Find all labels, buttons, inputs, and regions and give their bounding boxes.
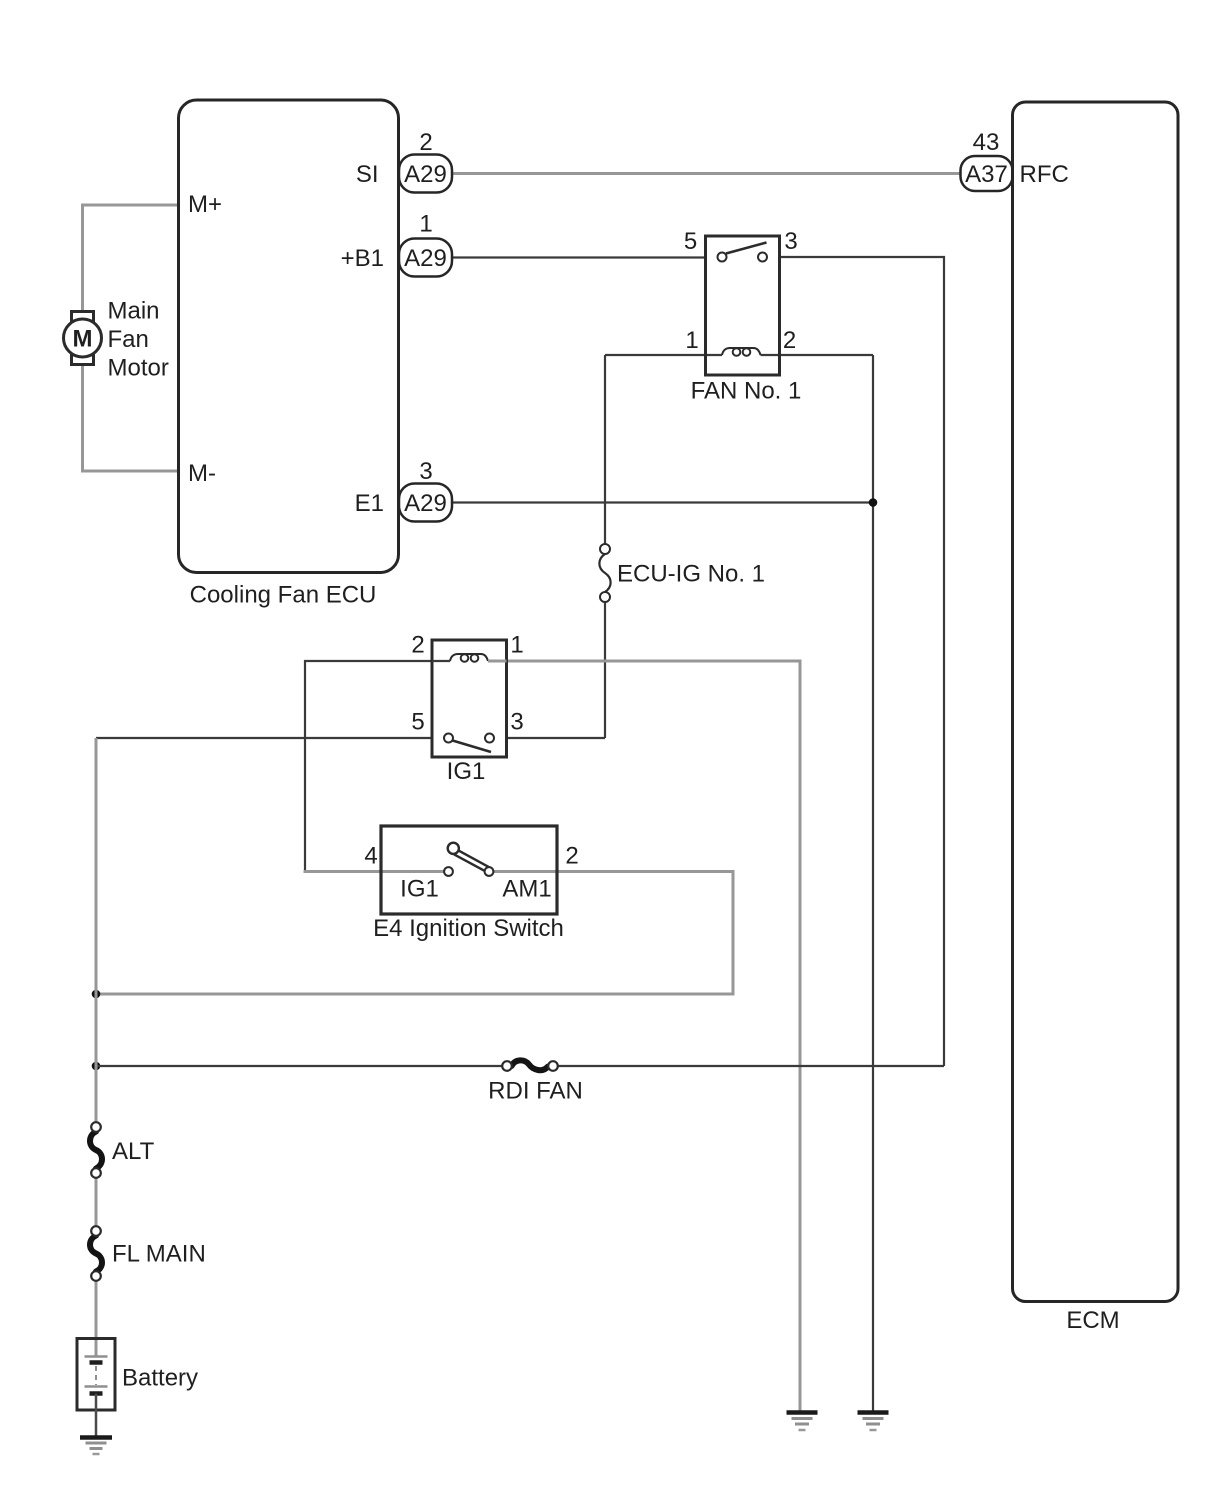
svg-text:E4 Ignition Switch: E4 Ignition Switch [373,915,564,942]
wire IG1 pin 2 down to ignition switch [305,661,432,872]
svg-text:AM1: AM1 [502,876,551,903]
wire IG1 pin 3 to fuse [507,737,606,739]
svg-text:2: 2 [565,843,578,870]
wire M+ to motor [83,205,179,313]
wire left bus [95,738,98,1127]
ground IG1 relay coil [787,1413,818,1431]
svg-text:1: 1 [419,211,432,238]
connector A29 pin 2 SI [399,129,452,193]
motor M Main Fan Motor [64,298,169,382]
battery [77,1339,198,1438]
wire +B1 to FAN relay pin 5 [452,256,706,258]
svg-text:RFC: RFC [1020,161,1069,188]
junction AM1 bus [92,990,101,999]
connector A29 pin 3 E1 [399,458,452,522]
svg-text:Fan: Fan [108,326,149,353]
svg-text:Cooling Fan ECU: Cooling Fan ECU [190,582,377,609]
wire ignition switch pin 4 [304,870,449,873]
svg-text:A29: A29 [404,245,447,272]
ground battery [80,1438,112,1455]
fuse ALT [90,1122,155,1178]
svg-text:A29: A29 [404,490,447,517]
svg-text:Main: Main [108,298,160,325]
svg-text:ECU-IG No. 1: ECU-IG No. 1 [617,561,765,588]
relay IG1 [411,632,523,786]
svg-text:5: 5 [684,228,697,255]
svg-text:M: M [73,326,93,353]
fuse ECU-IG No. 1 [599,355,765,738]
svg-text:E1: E1 [355,490,384,517]
wire RDI FAN right [558,1065,945,1067]
wire FAN relay pin 2 to ground net [761,354,874,356]
wire RDI FAN left [96,1065,503,1067]
fuse RDI FAN [488,1060,583,1104]
wire IG1 pin 1 to right ground [507,661,801,1413]
svg-text:ECM: ECM [1066,1307,1119,1334]
svg-text:A29: A29 [404,161,447,188]
relay FAN No. 1 [684,228,802,405]
svg-text:3: 3 [510,709,523,736]
wire E1 to junction [452,501,873,503]
wire FAN relay pin 1 to ECU-IG fuse [605,354,722,356]
connector A37 pin 43 RFC [961,129,1069,191]
svg-text:RDI FAN: RDI FAN [488,1078,583,1105]
switch E4 Ignition Switch [364,826,578,942]
svg-text:2: 2 [783,327,796,354]
svg-text:2: 2 [411,632,424,659]
junction E1 ground net [869,498,878,507]
svg-text:M-: M- [188,460,216,487]
ECM box [1013,102,1179,1334]
svg-text:2: 2 [419,129,432,156]
svg-text:4: 4 [364,843,377,870]
svg-text:M+: M+ [188,191,222,218]
wire FAN relay pin 3 to RDI FAN net [780,257,945,1066]
svg-text:IG1: IG1 [447,758,486,785]
wire SI to A37 [452,172,961,175]
Cooling Fan ECU box [179,100,399,609]
svg-text:A37: A37 [965,161,1008,188]
wire ignition switch pin 2 to AM1 feed [96,872,733,995]
svg-text:SI: SI [356,161,379,188]
wire ground net vertical [872,355,874,1413]
fusible link FL MAIN [90,1226,206,1281]
svg-text:3: 3 [784,228,797,255]
svg-text:43: 43 [973,129,1000,156]
ground E1 / FAN relay coil [858,1413,889,1431]
svg-text:IG1: IG1 [400,876,439,903]
svg-text:1: 1 [510,632,523,659]
junction RDI FAN bus [92,1062,101,1071]
svg-text:FAN No. 1: FAN No. 1 [691,378,802,405]
svg-text:5: 5 [411,709,424,736]
svg-text:3: 3 [419,458,432,485]
svg-text:Battery: Battery [122,1365,198,1392]
svg-text:ALT: ALT [112,1138,155,1165]
svg-text:1: 1 [685,327,698,354]
wire IG1 pin 5 to left bus [96,737,432,739]
connector A29 pin 1 +B1 [399,211,452,277]
svg-text:FL MAIN: FL MAIN [112,1241,206,1268]
wire M- to motor [83,363,179,471]
svg-text:+B1: +B1 [341,245,384,272]
svg-text:Motor: Motor [108,355,169,382]
